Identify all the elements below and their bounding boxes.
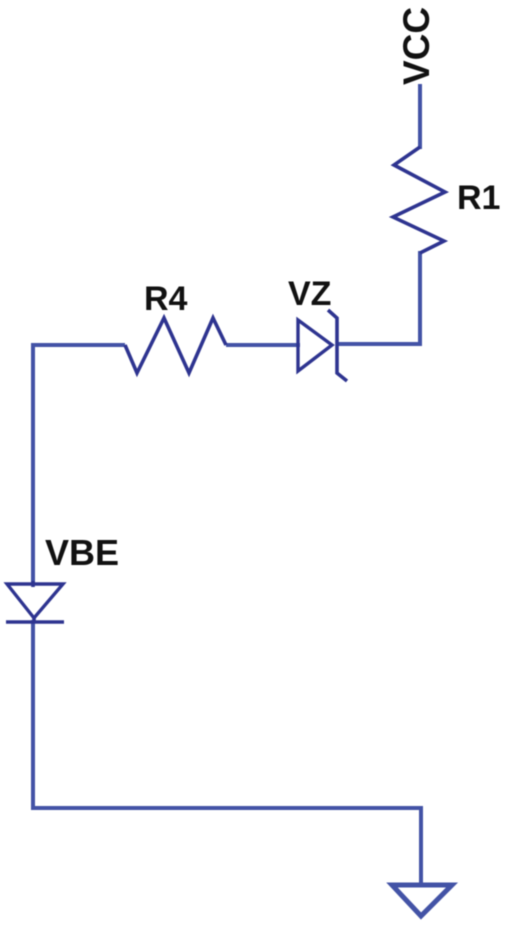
- svg-text:VCC: VCC: [396, 7, 437, 85]
- svg-text:VBE: VBE: [45, 532, 119, 573]
- svg-text:R4: R4: [144, 280, 188, 318]
- svg-text:R1: R1: [457, 179, 500, 217]
- svg-text:VZ: VZ: [288, 275, 331, 313]
